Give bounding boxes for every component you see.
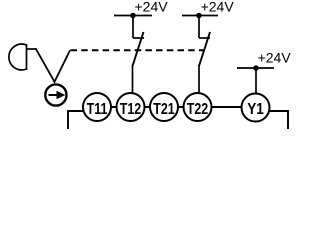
- svg-text:T21: T21: [153, 100, 175, 118]
- svg-text:+24V: +24V: [201, 0, 235, 15]
- svg-text:T11: T11: [87, 100, 108, 118]
- svg-text:+24V: +24V: [258, 50, 292, 66]
- svg-text:T22: T22: [187, 100, 209, 118]
- svg-text:Y1: Y1: [247, 101, 264, 118]
- svg-text:T12: T12: [120, 100, 142, 118]
- svg-text:+24V: +24V: [135, 0, 169, 15]
